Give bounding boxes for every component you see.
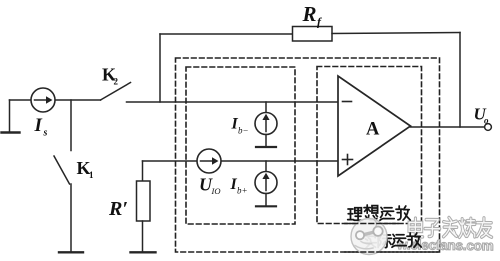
op-amp U1 triangle <box>338 76 411 176</box>
wire: R' bottom to ground <box>142 221 144 252</box>
dashed box: error sources (inner left) <box>186 67 295 224</box>
dashed box: ideal op-amp (inner right) <box>317 67 422 224</box>
op-amp plus input sign <box>343 159 353 161</box>
resistor Rf <box>293 27 333 42</box>
svg-text:A: A <box>366 120 380 140</box>
voltage source U_IO <box>197 149 221 173</box>
wire: non-inverting input line <box>143 160 339 162</box>
current source Is <box>31 88 55 112</box>
svg-text:1: 1 <box>89 170 94 180</box>
current source Ib+ branch wire <box>265 161 267 172</box>
char yun <box>380 207 394 220</box>
wire: outer dashed box bottom edge (over watermark) <box>345 251 440 253</box>
char ji <box>378 234 391 248</box>
ground (left of Is) <box>2 131 20 133</box>
char shi <box>363 233 376 248</box>
svg-text:R: R <box>302 2 317 26</box>
wire: feedback top right <box>332 33 460 34</box>
char fang <box>396 206 410 220</box>
label: actual op-amp text "shi ji yun fang" <box>363 233 421 248</box>
svg-text:s: s <box>43 128 48 139</box>
char fang (2) <box>407 233 421 247</box>
current source Ib+ <box>255 172 277 194</box>
wire: ideal box bottom edge (over watermark) <box>345 223 400 225</box>
wire: feedback down to output <box>459 33 461 128</box>
svg-text:I: I <box>34 115 43 136</box>
svg-text:b−: b− <box>238 126 249 136</box>
dashed box: actual op-amp (outer) <box>176 58 440 252</box>
resistor R' <box>137 181 151 221</box>
svg-text:b+: b+ <box>237 186 248 196</box>
wire: feedback tap up <box>159 34 161 102</box>
svg-text:R′: R′ <box>108 198 128 220</box>
char xiang <box>364 205 378 220</box>
svg-text:o: o <box>484 116 489 126</box>
wire: K1 to ground <box>70 184 72 252</box>
label: ideal op-amp text "li xiang yun fang" <box>348 205 411 220</box>
wire: R' top connection <box>142 161 144 181</box>
wire: left source top wire <box>10 99 101 101</box>
char li <box>348 208 363 220</box>
watermark: elecfans logo <box>351 219 387 255</box>
termination bar (Ib+) <box>256 205 276 207</box>
switch K1 blade <box>54 156 70 184</box>
wire: feedback top left <box>160 33 293 35</box>
switch K2 blade <box>101 83 131 101</box>
ground (below K1) <box>59 251 83 253</box>
current source Ib- <box>255 113 277 135</box>
wire: branch down to K1 <box>70 100 72 151</box>
wire: left drop to ground <box>9 100 11 132</box>
wire: output <box>411 126 485 128</box>
ground (below R') <box>131 251 156 253</box>
output terminal Uo <box>485 124 492 131</box>
current source Ib- branch wire <box>265 102 267 113</box>
char yun (2) <box>392 234 406 247</box>
svg-text:2: 2 <box>114 77 119 87</box>
svg-text:IO: IO <box>211 186 221 196</box>
op-amp minus input sign <box>343 101 352 103</box>
wire: inverting input line <box>127 101 339 103</box>
termination bar (Ib-) <box>256 146 276 148</box>
